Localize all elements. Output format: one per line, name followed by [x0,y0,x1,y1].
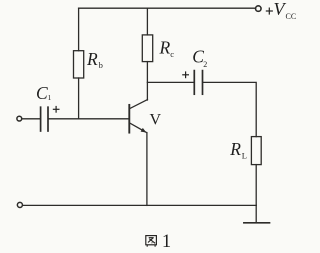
svg-text:R: R [159,37,171,57]
capacitor C1 [41,107,48,131]
svg-text:CC: CC [286,12,297,21]
svg-text:C: C [36,83,48,103]
wire ground stub [255,205,257,222]
svg-text:R: R [86,49,98,69]
label +Vcc [266,0,296,21]
svg-text:1: 1 [48,93,52,102]
label + (C1 polarity) [53,106,60,113]
terminal +Vcc [256,6,262,12]
wire C2 right plate to RL top [203,82,256,136]
wire Rb upper lead [78,8,80,51]
terminal input bottom [17,202,22,207]
wire input terminal to C1 [22,118,39,120]
svg-text:L: L [242,151,247,161]
label 图 1 (figure caption) [146,232,171,252]
ground [244,222,270,224]
wire Rc upper lead [146,8,148,35]
wire collector node to C2 left plate [147,81,193,83]
label C1 [36,83,52,103]
wire top rail (Vcc) [79,7,256,9]
label RL [229,139,247,161]
terminal input top [17,116,22,121]
wire Rc lower lead / collector node [146,62,148,100]
label Rc [159,37,175,59]
svg-text:b: b [99,60,103,70]
capacitor C2 [194,71,202,95]
svg-text:2: 2 [203,60,207,69]
label + (C2 polarity) [182,71,189,78]
wire bottom rail [23,204,256,206]
resistor Rc [142,35,152,62]
wire RL lower lead to bottom rail [255,165,257,206]
wire Rb lower lead to base node [78,78,80,119]
wire emitter to bottom rail [146,133,148,206]
resistor Rb [74,51,84,78]
svg-text:R: R [229,139,241,159]
svg-text:c: c [170,49,174,59]
svg-text:1: 1 [162,232,171,252]
wire base (C1 to transistor base) [49,118,130,120]
transistor V [129,100,147,133]
resistor RL [251,137,261,165]
svg-text:V: V [150,112,162,129]
label Rb [86,49,103,70]
label C2 [192,47,207,69]
